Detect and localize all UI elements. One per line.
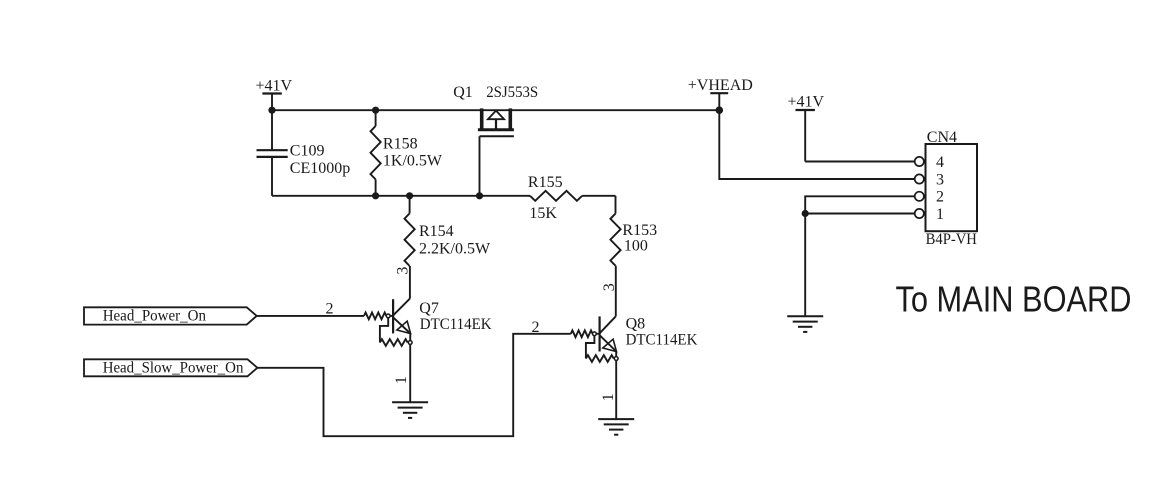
node junction pin1/pin2 ground (802, 210, 809, 217)
power +41V (right) (788, 93, 825, 161)
svg-text:2: 2 (532, 319, 540, 336)
svg-text:CE1000p: CE1000p (290, 160, 350, 177)
wire R153 to Q8 collector (615, 266, 617, 317)
svg-text:1K/0.5W: 1K/0.5W (383, 152, 443, 169)
resistor R154 2.2K/0.5W (405, 196, 492, 266)
net flag Head_Slow_Power_On (84, 359, 257, 376)
wire Head_Power_On to Q7 base (257, 315, 364, 317)
svg-text:2.2K/0.5W: 2.2K/0.5W (419, 241, 491, 258)
pin 3 (915, 171, 944, 188)
svg-text:+41V: +41V (256, 77, 293, 94)
svg-text:1: 1 (936, 206, 944, 223)
wire ground drop (804, 214, 806, 317)
svg-text:R153: R153 (622, 222, 657, 239)
transistor Q8 DTC114EK (571, 316, 698, 419)
transistor Q7 DTC114EK (364, 299, 492, 403)
svg-text:3: 3 (936, 171, 944, 188)
net flag Head_Power_On (84, 307, 257, 324)
svg-text:2: 2 (326, 300, 334, 317)
svg-text:+VHEAD: +VHEAD (688, 77, 753, 94)
ground G2 (Q7) (392, 402, 428, 418)
resistor R158 1K/0.5W (371, 110, 443, 196)
power +41V (left) (256, 77, 293, 110)
svg-text:R154: R154 (419, 223, 454, 240)
svg-text:C109: C109 (290, 142, 325, 159)
capacitor C109 CE1000p (257, 110, 351, 196)
transistor Q1 2SJ553S (P-ch MOSFET) (453, 84, 538, 196)
svg-text:100: 100 (624, 237, 648, 254)
svg-text:R158: R158 (383, 136, 418, 153)
svg-text:Head_Power_On: Head_Power_On (103, 308, 206, 325)
power +VHEAD (688, 77, 753, 110)
svg-text:DTC114EK: DTC114EK (626, 332, 698, 349)
svg-text:DTC114EK: DTC114EK (420, 316, 492, 333)
svg-text:Q1: Q1 (453, 84, 473, 101)
wire R154 to Q7 collector (409, 266, 411, 299)
svg-text:1: 1 (600, 393, 617, 401)
svg-text:1: 1 (393, 376, 410, 384)
svg-text:Head_Slow_Power_On: Head_Slow_Power_On (103, 360, 244, 377)
node junction +VHEAD (716, 106, 724, 114)
svg-text:CN4: CN4 (927, 129, 957, 146)
svg-text:4: 4 (936, 154, 944, 171)
node junction +41V/C109 (268, 107, 275, 114)
node junction R158 top (372, 107, 379, 114)
svg-text:2: 2 (936, 189, 944, 206)
wire top +41V rail (272, 109, 719, 111)
wire bottom rail (C109/R158/R154/gate to R155) (272, 195, 530, 197)
wire +VHEAD to CN4 pin 3 (719, 110, 915, 179)
node junction Q1 gate (476, 192, 483, 199)
ground G3 (Q8) (598, 419, 634, 435)
svg-text:B4P-VH: B4P-VH (926, 231, 978, 248)
pin 1 (915, 206, 944, 223)
svg-text:To MAIN BOARD: To MAIN BOARD (896, 279, 1132, 320)
svg-text:Q7: Q7 (419, 300, 439, 317)
pin 4 (915, 154, 944, 171)
resistor R155 15K (528, 174, 616, 222)
svg-text:+41V: +41V (788, 93, 825, 110)
svg-text:15K: 15K (529, 205, 557, 222)
resistor R153 100 (610, 196, 657, 266)
svg-text:R155: R155 (528, 174, 563, 191)
node junction R158 bottom (372, 192, 379, 199)
wire +41V to CN4 pin 4 (805, 161, 915, 163)
ground G1 (CN4) (787, 316, 823, 332)
svg-text:2SJ553S: 2SJ553S (486, 84, 538, 101)
wire CN4 pin 1 to ground node (805, 213, 915, 215)
wire Head_Slow_Power_On to Q8 base (257, 334, 570, 436)
svg-text:Q8: Q8 (626, 316, 646, 333)
connector CN4 B4P-VH (926, 129, 978, 248)
node junction R154 top (406, 192, 413, 199)
pin 2 (915, 189, 944, 206)
wire CN4 pin 2 to ground node (805, 196, 915, 213)
